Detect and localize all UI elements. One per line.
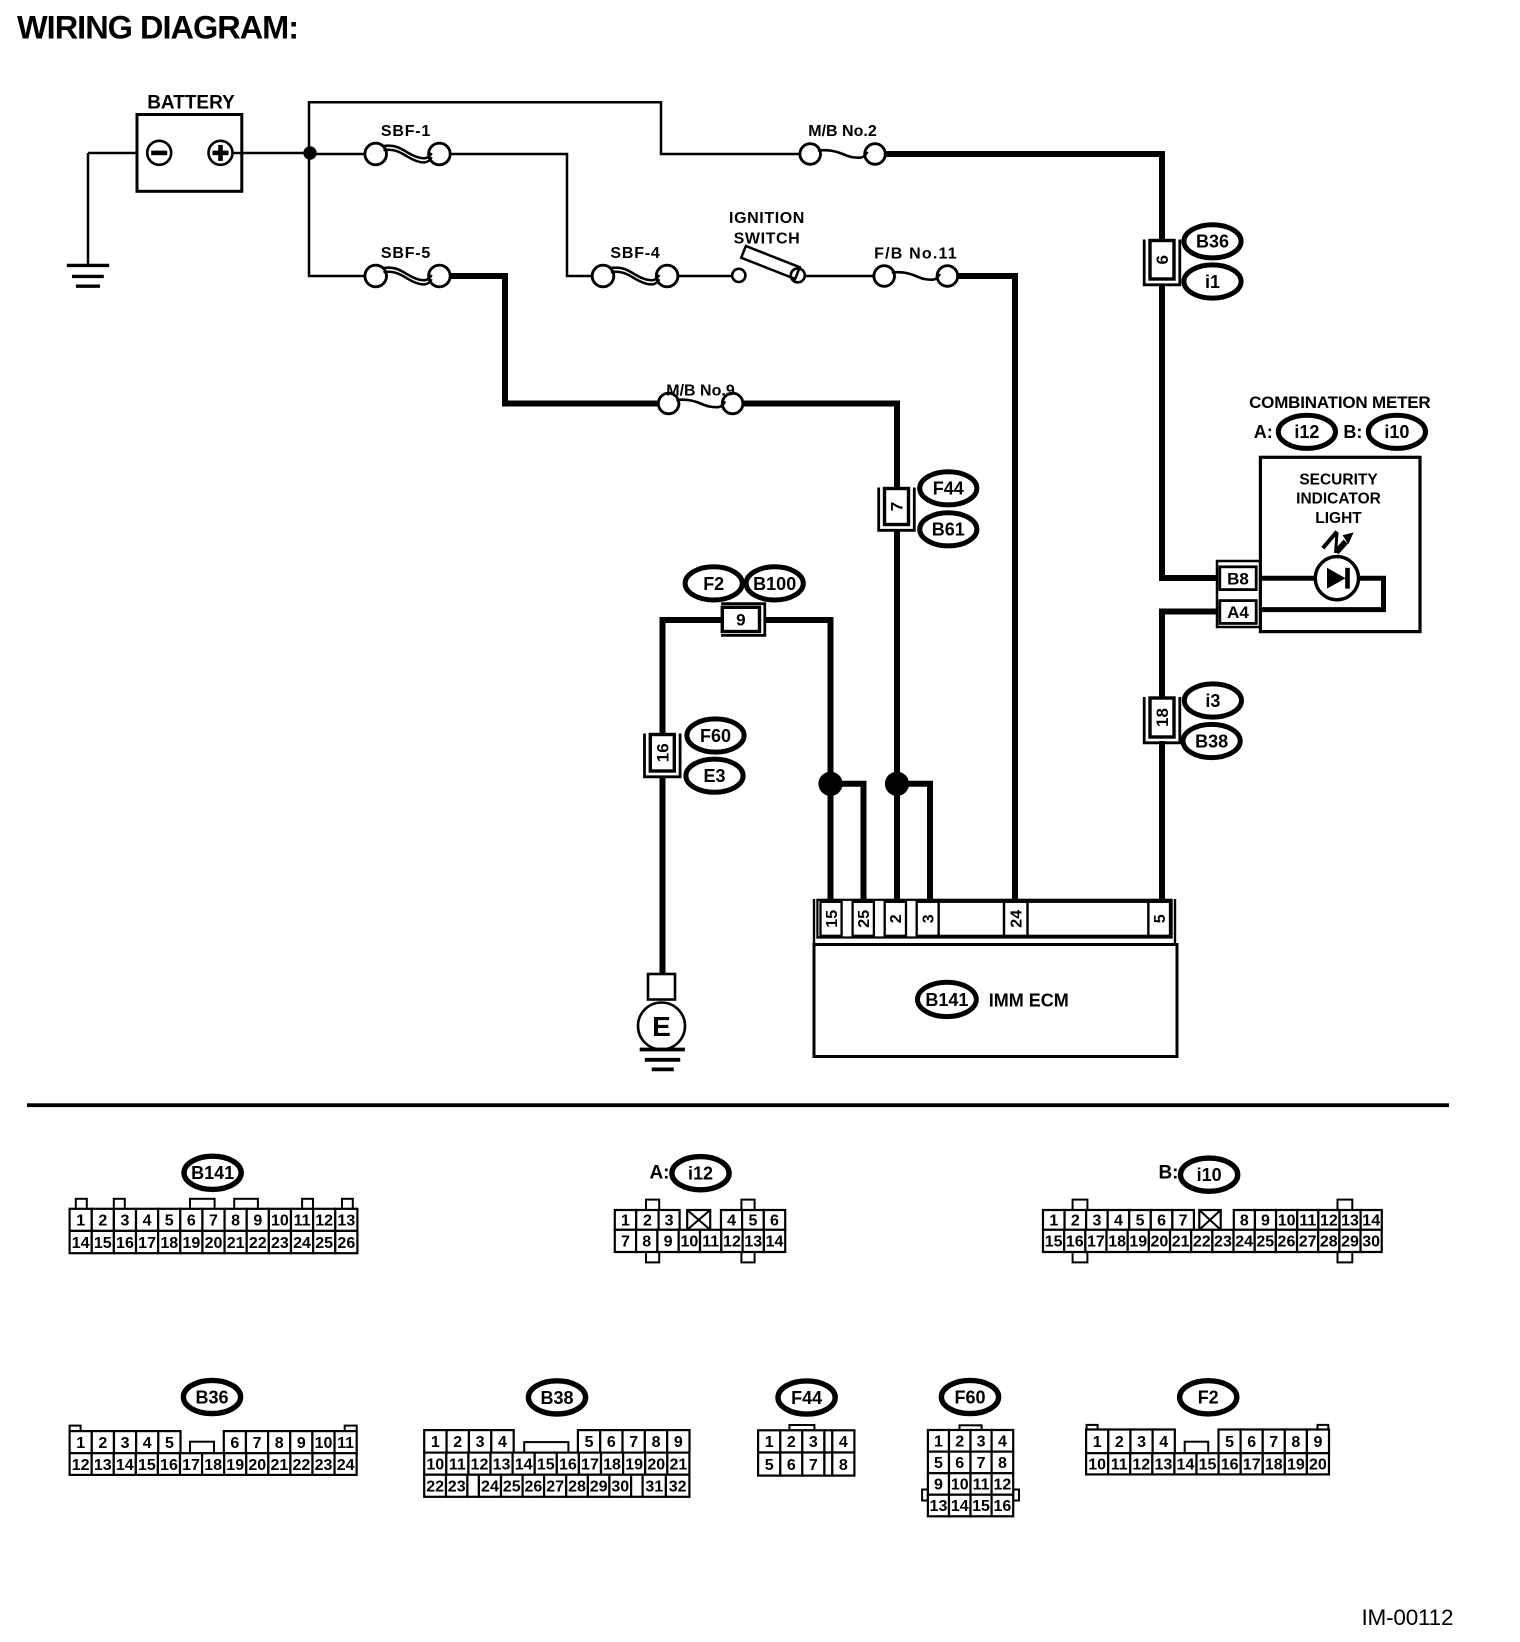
svg-text:6: 6 — [1153, 255, 1172, 264]
svg-text:8: 8 — [275, 1435, 284, 1452]
svg-text:F44: F44 — [791, 1388, 822, 1408]
svg-text:28: 28 — [1320, 1234, 1338, 1251]
svg-text:18: 18 — [1108, 1234, 1126, 1251]
svg-text:17: 17 — [1243, 1457, 1261, 1474]
svg-text:i10: i10 — [1384, 422, 1409, 442]
wire meter A4 to connector 18 (thick) — [1162, 612, 1217, 698]
connector oval F2 — [685, 567, 742, 600]
connector oval i12 (pinout) — [672, 1157, 729, 1190]
svg-text:SECURITY: SECURITY — [1299, 472, 1378, 489]
connector B38 pinout — [424, 1430, 446, 1453]
svg-text:13: 13 — [744, 1234, 762, 1251]
svg-text:31: 31 — [645, 1478, 663, 1495]
connector oval i10 (meter) — [1368, 415, 1425, 448]
wire M/B No.9 out to connector 7 (thick) — [742, 404, 897, 490]
svg-text:i1: i1 — [1205, 272, 1220, 292]
svg-text:B36: B36 — [1196, 232, 1229, 252]
svg-text:14: 14 — [515, 1456, 533, 1473]
wire SBF-1 out, down to SBF-4 line — [450, 154, 592, 276]
svg-text:20: 20 — [205, 1235, 223, 1252]
connector oval i12 (meter) — [1278, 415, 1335, 448]
svg-text:18: 18 — [1153, 708, 1172, 727]
svg-text:9: 9 — [736, 610, 745, 629]
svg-text:14: 14 — [951, 1498, 969, 1515]
svg-text:4: 4 — [998, 1434, 1007, 1451]
svg-text:15: 15 — [1199, 1457, 1217, 1474]
svg-text:9: 9 — [674, 1434, 683, 1451]
svg-text:25: 25 — [315, 1235, 333, 1252]
node junction dot to pins 2/3 — [885, 772, 908, 795]
svg-text:18: 18 — [160, 1235, 178, 1252]
wire ignition switch to F/B No.11 — [805, 275, 875, 278]
svg-text:1: 1 — [621, 1213, 630, 1230]
connector oval F44 — [920, 472, 977, 505]
svg-text:12: 12 — [994, 1477, 1012, 1494]
svg-text:3: 3 — [1137, 1434, 1146, 1451]
svg-text:B36: B36 — [195, 1387, 228, 1407]
svg-text:7: 7 — [1269, 1434, 1278, 1451]
svg-text:19: 19 — [1129, 1234, 1147, 1251]
connector oval i1 — [1184, 265, 1241, 298]
svg-text:29: 29 — [1341, 1234, 1359, 1251]
wire junction down to SBF-5 — [309, 153, 365, 276]
svg-text:15: 15 — [94, 1235, 112, 1252]
svg-text:21: 21 — [669, 1456, 687, 1473]
connector oval F60 (pinout) — [941, 1380, 998, 1413]
svg-text:8: 8 — [839, 1457, 848, 1474]
svg-text:10: 10 — [951, 1477, 969, 1494]
svg-text:28: 28 — [568, 1478, 586, 1495]
svg-text:20: 20 — [1309, 1457, 1327, 1474]
svg-text:2: 2 — [1115, 1434, 1124, 1451]
svg-text:11: 11 — [702, 1234, 719, 1251]
svg-text:4: 4 — [727, 1213, 736, 1230]
svg-text:B8: B8 — [1227, 569, 1249, 588]
battery positive terminal — [209, 141, 233, 165]
pin 15 (ECM) — [821, 902, 842, 936]
wire junction dot down to ECM pin 2 (thick) — [894, 784, 900, 903]
svg-text:7: 7 — [888, 502, 907, 511]
svg-text:18: 18 — [603, 1456, 621, 1473]
svg-text:23: 23 — [448, 1478, 466, 1495]
wire LED loop back to A4 — [1256, 578, 1384, 609]
svg-text:25: 25 — [503, 1478, 521, 1495]
wire connector 18 down to ECM pin 5 (thick) — [1159, 741, 1165, 903]
wire connector 7 down to junction dot (thick) — [894, 530, 900, 784]
svg-text:5: 5 — [1152, 914, 1169, 923]
svg-text:B100: B100 — [753, 574, 796, 594]
connector oval i3 — [1184, 684, 1241, 717]
pin 2 (ECM) — [885, 902, 906, 936]
wire SBF-5 out to M/B No.9 (thick) — [450, 276, 660, 404]
svg-text:9: 9 — [1261, 1213, 1270, 1230]
svg-text:F44: F44 — [933, 479, 964, 499]
fuse M/B No.2 — [800, 144, 821, 165]
svg-text:32: 32 — [669, 1478, 687, 1495]
svg-text:5: 5 — [585, 1434, 594, 1451]
svg-text:7: 7 — [253, 1435, 262, 1452]
svg-text:17: 17 — [182, 1457, 200, 1474]
connector 18 (i3/B38 inline) — [1144, 697, 1180, 743]
ground circle E — [638, 1003, 685, 1050]
svg-text:23: 23 — [315, 1457, 333, 1474]
svg-text:5: 5 — [165, 1435, 174, 1452]
svg-text:11: 11 — [449, 1456, 466, 1473]
svg-text:19: 19 — [182, 1235, 200, 1252]
svg-text:A4: A4 — [1227, 603, 1249, 622]
svg-text:10: 10 — [426, 1456, 444, 1473]
svg-text:A:: A: — [649, 1163, 669, 1184]
svg-text:9: 9 — [297, 1435, 306, 1452]
svg-text:19: 19 — [625, 1456, 643, 1473]
svg-text:3: 3 — [1092, 1213, 1101, 1230]
svg-text:18: 18 — [1265, 1457, 1283, 1474]
svg-text:7: 7 — [629, 1434, 638, 1451]
svg-text:5: 5 — [1136, 1213, 1145, 1230]
svg-text:17: 17 — [138, 1235, 156, 1252]
svg-text:16: 16 — [653, 743, 672, 762]
connector oval F44 (pinout) — [778, 1381, 835, 1414]
svg-text:i12: i12 — [688, 1164, 713, 1184]
svg-text:1: 1 — [1093, 1434, 1102, 1451]
svg-text:16: 16 — [1066, 1234, 1084, 1251]
svg-text:11: 11 — [337, 1435, 354, 1452]
svg-text:2: 2 — [1071, 1213, 1080, 1230]
connector B141 pinout — [76, 1199, 87, 1209]
svg-text:15: 15 — [972, 1498, 990, 1515]
pin 5 (ECM) — [1148, 902, 1170, 936]
wire connector 9 left to connector 16 (thick) — [663, 620, 722, 734]
svg-text:10: 10 — [315, 1435, 333, 1452]
svg-text:15: 15 — [824, 910, 841, 928]
svg-text:WIRING DIAGRAM:: WIRING DIAGRAM: — [17, 10, 298, 46]
svg-text:7: 7 — [1179, 1213, 1188, 1230]
svg-text:22: 22 — [426, 1478, 444, 1495]
svg-text:1: 1 — [76, 1213, 85, 1230]
fuse SBF-1 — [310, 153, 365, 156]
svg-text:3: 3 — [120, 1213, 129, 1230]
svg-text:12: 12 — [72, 1457, 90, 1474]
blank cell ECM 1 — [939, 902, 1004, 936]
connector oval B38 (pinout) — [528, 1381, 585, 1414]
svg-text:24: 24 — [293, 1235, 311, 1252]
svg-text:2: 2 — [955, 1434, 964, 1451]
svg-text:9: 9 — [664, 1234, 673, 1251]
svg-text:21: 21 — [1172, 1234, 1190, 1251]
svg-text:14: 14 — [116, 1457, 134, 1474]
separator line — [27, 1103, 1449, 1107]
svg-text:SBF-5: SBF-5 — [381, 245, 431, 262]
svg-text:17: 17 — [581, 1456, 599, 1473]
svg-text:BATTERY: BATTERY — [147, 93, 235, 114]
svg-text:2: 2 — [888, 914, 905, 923]
svg-text:F60: F60 — [954, 1387, 985, 1407]
svg-text:SBF-4: SBF-4 — [610, 245, 660, 262]
svg-text:8: 8 — [1240, 1213, 1249, 1230]
IMM ECM body — [814, 945, 1177, 1057]
connector oval F60 — [687, 719, 744, 752]
svg-text:12: 12 — [1320, 1213, 1338, 1230]
svg-text:2: 2 — [98, 1435, 107, 1452]
IMM ECM connector strip B141 — [817, 900, 1171, 938]
svg-text:12: 12 — [471, 1456, 489, 1473]
svg-text:15: 15 — [1045, 1234, 1063, 1251]
connector F44 pinout — [789, 1425, 814, 1430]
svg-text:7: 7 — [621, 1234, 630, 1251]
connector i10 pinout — [1073, 1200, 1088, 1210]
svg-text:6: 6 — [230, 1435, 239, 1452]
svg-text:24: 24 — [1235, 1234, 1253, 1251]
svg-text:B:: B: — [1158, 1163, 1178, 1184]
pin 3 (ECM) — [917, 902, 939, 936]
ground (E) — [640, 1050, 685, 1070]
fuse SBF-5 — [365, 265, 387, 287]
ground terminal square — [648, 974, 675, 1000]
svg-text:6: 6 — [770, 1213, 779, 1230]
svg-text:IM-00112: IM-00112 — [1362, 1605, 1454, 1630]
connector 16 (F60/E3 inline) — [645, 734, 681, 777]
svg-text:IMM ECM: IMM ECM — [989, 990, 1069, 1010]
svg-text:1: 1 — [1049, 1213, 1058, 1230]
svg-text:4: 4 — [839, 1434, 848, 1451]
svg-text:4: 4 — [143, 1435, 152, 1452]
svg-text:18: 18 — [204, 1457, 222, 1474]
connector oval E3 — [686, 759, 743, 792]
svg-text:9: 9 — [253, 1213, 262, 1230]
svg-text:14: 14 — [1362, 1213, 1380, 1230]
svg-text:3: 3 — [809, 1434, 818, 1451]
svg-text:26: 26 — [337, 1235, 355, 1252]
svg-text:25: 25 — [856, 910, 873, 928]
svg-text:23: 23 — [271, 1235, 289, 1252]
svg-text:i12: i12 — [1294, 422, 1319, 442]
svg-text:E: E — [652, 1011, 671, 1042]
svg-text:B38: B38 — [540, 1388, 573, 1408]
svg-text:10: 10 — [1088, 1457, 1106, 1474]
svg-text:F60: F60 — [700, 726, 731, 746]
svg-text:4: 4 — [498, 1434, 507, 1451]
svg-text:22: 22 — [293, 1457, 311, 1474]
svg-text:3: 3 — [121, 1435, 130, 1452]
svg-text:13: 13 — [930, 1498, 948, 1515]
svg-text:24: 24 — [1008, 910, 1025, 928]
connector oval B38 — [1183, 724, 1240, 757]
svg-text:6: 6 — [1157, 1213, 1166, 1230]
pin 24 (ECM) — [1004, 902, 1028, 936]
pin 25 (ECM) — [853, 902, 874, 936]
svg-text:6: 6 — [607, 1434, 616, 1451]
wire M/B No.2 out to connector 6 (thick) — [884, 154, 1162, 241]
wire connector 16 down to ground E (thick) — [660, 777, 666, 975]
svg-text:8: 8 — [642, 1234, 651, 1251]
svg-text:A:: A: — [1254, 422, 1273, 442]
wire branch to ECM pin 3 (thick) — [897, 784, 930, 903]
connector i12 pinout — [646, 1200, 659, 1210]
svg-text:12: 12 — [1132, 1457, 1150, 1474]
connector oval B36 — [1184, 225, 1241, 258]
LED indicator lamp — [1315, 557, 1358, 600]
svg-text:4: 4 — [1159, 1434, 1168, 1451]
wire SBF-4 to ignition switch — [678, 275, 732, 278]
svg-text:15: 15 — [138, 1457, 156, 1474]
svg-text:F2: F2 — [703, 574, 724, 594]
svg-text:1: 1 — [765, 1434, 774, 1451]
wire junction up and over to M/B No.2 — [309, 102, 801, 154]
svg-text:5: 5 — [165, 1213, 174, 1230]
svg-text:17: 17 — [1087, 1234, 1105, 1251]
svg-text:2: 2 — [643, 1213, 652, 1230]
svg-text:5: 5 — [765, 1457, 774, 1474]
svg-text:16: 16 — [1221, 1457, 1239, 1474]
svg-text:24: 24 — [481, 1478, 499, 1495]
svg-text:13: 13 — [337, 1213, 355, 1230]
svg-text:16: 16 — [116, 1235, 134, 1252]
svg-text:2: 2 — [453, 1434, 462, 1451]
svg-text:20: 20 — [647, 1456, 665, 1473]
svg-text:13: 13 — [1341, 1213, 1359, 1230]
svg-text:F/B No.11: F/B No.11 — [874, 246, 958, 263]
svg-text:21: 21 — [227, 1235, 245, 1252]
svg-text:10: 10 — [271, 1213, 289, 1230]
svg-text:10: 10 — [680, 1234, 698, 1251]
svg-text:5: 5 — [748, 1213, 757, 1230]
wire connector 9 right down to junction dot (thick) — [765, 620, 831, 784]
svg-text:B38: B38 — [1195, 731, 1228, 751]
combination meter box — [1260, 457, 1420, 631]
svg-text:13: 13 — [94, 1457, 112, 1474]
svg-text:5: 5 — [934, 1455, 943, 1472]
svg-text:8: 8 — [998, 1455, 1007, 1472]
svg-text:8: 8 — [231, 1213, 240, 1230]
svg-text:B141: B141 — [191, 1163, 234, 1183]
fuse SBF-4 — [592, 265, 614, 287]
fuse M/B No.9 — [658, 393, 679, 414]
svg-text:16: 16 — [994, 1498, 1012, 1515]
pin A4 — [1220, 601, 1256, 624]
ground (battery) — [67, 265, 109, 286]
connector 6 (B36/i1 inline) — [1144, 240, 1180, 285]
svg-text:29: 29 — [590, 1478, 608, 1495]
svg-text:26: 26 — [1278, 1234, 1296, 1251]
wire battery negative to ground stem — [88, 152, 148, 155]
blank cell ECM 2 — [1028, 902, 1149, 936]
wire battery positive to junction — [232, 152, 310, 155]
svg-text:27: 27 — [1299, 1234, 1317, 1251]
svg-text:B:: B: — [1343, 422, 1362, 442]
connector oval B36 (pinout) — [183, 1380, 240, 1413]
wire F/B No.11 out down to ECM pin 24 (thick) — [957, 276, 1015, 903]
svg-text:4: 4 — [1114, 1213, 1123, 1230]
svg-text:3: 3 — [920, 914, 937, 923]
svg-text:13: 13 — [493, 1456, 511, 1473]
connector oval B141 (ECM) — [918, 982, 977, 1016]
svg-text:F2: F2 — [1198, 1388, 1219, 1408]
svg-text:14: 14 — [1177, 1457, 1195, 1474]
svg-text:INDICATOR: INDICATOR — [1296, 491, 1381, 508]
svg-text:14: 14 — [766, 1234, 784, 1251]
svg-text:3: 3 — [476, 1434, 485, 1451]
connector B36 pinout — [70, 1426, 81, 1433]
lightning arrow icon — [1323, 532, 1337, 549]
svg-text:30: 30 — [1362, 1234, 1380, 1251]
svg-text:11: 11 — [973, 1477, 990, 1494]
svg-text:19: 19 — [226, 1457, 244, 1474]
svg-text:IGNITION: IGNITION — [729, 210, 805, 227]
svg-text:SWITCH: SWITCH — [734, 231, 801, 248]
svg-text:M/B No.9: M/B No.9 — [666, 383, 735, 400]
svg-text:1: 1 — [76, 1435, 85, 1452]
svg-text:8: 8 — [652, 1434, 661, 1451]
svg-text:14: 14 — [72, 1235, 90, 1252]
svg-text:16: 16 — [559, 1456, 577, 1473]
svg-text:26: 26 — [524, 1478, 542, 1495]
svg-text:11: 11 — [1111, 1457, 1128, 1474]
svg-text:SBF-1: SBF-1 — [381, 123, 431, 140]
svg-text:22: 22 — [249, 1235, 267, 1252]
svg-text:B61: B61 — [932, 520, 965, 540]
svg-text:11: 11 — [294, 1213, 311, 1230]
meter connector tab outline — [1217, 561, 1260, 627]
svg-text:21: 21 — [270, 1457, 288, 1474]
wire branch to ECM pin 25 (thick) — [831, 784, 864, 903]
svg-text:25: 25 — [1256, 1234, 1274, 1251]
svg-text:20: 20 — [248, 1457, 266, 1474]
connector 7 (F44/B61 inline) — [879, 488, 915, 531]
connector F2 pinout — [1087, 1425, 1098, 1430]
connector oval B141 (pinout) — [184, 1156, 241, 1189]
svg-text:13: 13 — [1154, 1457, 1172, 1474]
svg-text:1: 1 — [934, 1434, 943, 1451]
svg-text:19: 19 — [1287, 1457, 1305, 1474]
svg-text:7: 7 — [809, 1457, 818, 1474]
svg-text:4: 4 — [143, 1213, 152, 1230]
svg-text:3: 3 — [977, 1434, 986, 1451]
connector oval B100 — [746, 567, 803, 600]
fuse F/B No.11 — [874, 266, 895, 287]
svg-text:2: 2 — [787, 1434, 796, 1451]
svg-text:3: 3 — [665, 1213, 674, 1230]
svg-text:9: 9 — [1313, 1434, 1322, 1451]
node junction dot to pins 15/25 — [819, 772, 842, 795]
svg-text:10: 10 — [1278, 1213, 1296, 1230]
svg-text:B141: B141 — [925, 990, 968, 1010]
battery B1 box — [137, 115, 242, 192]
battery negative terminal — [147, 141, 171, 165]
svg-text:12: 12 — [723, 1234, 741, 1251]
svg-text:E3: E3 — [703, 766, 725, 786]
svg-text:8: 8 — [1291, 1434, 1300, 1451]
wire meter B8 to LED — [1256, 576, 1316, 581]
connector oval F2 (pinout) — [1180, 1381, 1237, 1414]
svg-text:i3: i3 — [1205, 691, 1220, 711]
svg-text:7: 7 — [209, 1213, 218, 1230]
pin B8 — [1220, 567, 1256, 590]
svg-text:LIGHT: LIGHT — [1315, 510, 1362, 527]
svg-text:5: 5 — [1225, 1434, 1234, 1451]
svg-text:6: 6 — [787, 1457, 796, 1474]
wire junction dot down to ECM pin 15 (thick) — [828, 784, 834, 903]
svg-text:16: 16 — [160, 1457, 178, 1474]
svg-text:24: 24 — [337, 1457, 355, 1474]
svg-text:6: 6 — [955, 1455, 964, 1472]
connector F60 pinout — [960, 1425, 982, 1430]
svg-text:15: 15 — [537, 1456, 555, 1473]
svg-text:9: 9 — [934, 1477, 943, 1494]
svg-text:6: 6 — [187, 1213, 196, 1230]
svg-text:i10: i10 — [1197, 1165, 1222, 1185]
svg-text:11: 11 — [1299, 1213, 1316, 1230]
svg-text:7: 7 — [977, 1455, 986, 1472]
